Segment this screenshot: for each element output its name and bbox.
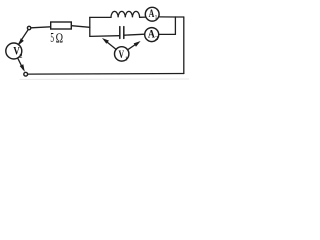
V1 left probe wire bbox=[105, 40, 116, 49]
capacitor C right plate bbox=[123, 27, 125, 39]
wire capacitor branch left bbox=[90, 35, 119, 38]
wire A2 to right edge bbox=[159, 33, 176, 35]
wire top branch to inductor bbox=[90, 16, 111, 18]
wire from resistor to junction node bbox=[72, 26, 90, 28]
inductor L (4 humps) bbox=[111, 11, 140, 17]
voltmeter V1 bbox=[115, 47, 129, 61]
V1 right probe arrowhead bbox=[134, 41, 141, 47]
wire A1 to top-right corner bbox=[159, 16, 176, 18]
ammeter A1 bbox=[145, 7, 159, 21]
wire capacitor branch right bbox=[124, 34, 144, 35]
svg-text:Ω: Ω bbox=[56, 31, 64, 46]
wire right vertical bbox=[183, 17, 185, 74]
scan artifact faint line bbox=[20, 78, 189, 80]
svg-text:1: 1 bbox=[155, 15, 158, 21]
svg-text:2: 2 bbox=[19, 53, 22, 60]
resistor R 5Ω (box) bbox=[51, 22, 72, 29]
V2 probe wire to T1 bbox=[19, 30, 28, 44]
svg-text:1: 1 bbox=[125, 56, 128, 62]
voltmeter V2 bbox=[6, 43, 22, 59]
wire left edge of parallel section bbox=[89, 17, 91, 36]
ammeter A2 bbox=[145, 28, 159, 42]
svg-text:5: 5 bbox=[50, 31, 54, 46]
V2 probe wire to T2 bbox=[18, 58, 24, 69]
node T2 (bottom-left open terminal) bbox=[24, 72, 28, 76]
capacitor C left plate bbox=[119, 27, 121, 39]
svg-text:2: 2 bbox=[155, 35, 158, 42]
wire top-right extension bbox=[175, 16, 183, 18]
svg-text:V: V bbox=[119, 49, 125, 61]
wire right edge of parallel section bbox=[174, 17, 176, 34]
V2 probe arrowhead (points to meter) bbox=[18, 38, 24, 45]
wire from T1 to resistor bbox=[31, 27, 50, 28]
node T1 (top-left open terminal) bbox=[27, 26, 30, 29]
wire bottom bbox=[28, 73, 184, 76]
V1 left probe arrowhead bbox=[102, 38, 109, 44]
V2 probe arrowhead (points to T2) bbox=[20, 64, 25, 72]
V1 right probe wire bbox=[128, 43, 138, 50]
wire inductor to A1 bbox=[140, 16, 147, 18]
